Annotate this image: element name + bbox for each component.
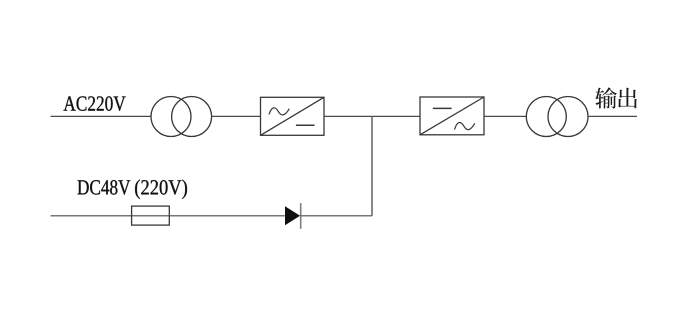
wire DC bus vertical (junction node to diode output) bbox=[371, 116, 373, 215]
wire inverter to T2 bbox=[484, 115, 526, 117]
wire AC input bbox=[51, 115, 152, 117]
wire rectifier to inverter bbox=[324, 115, 420, 117]
transformer T1 bbox=[151, 97, 212, 137]
wire diode to DC bus bbox=[301, 215, 372, 217]
wire T1 to rectifier bbox=[212, 115, 261, 117]
label DC48V(220V) bbox=[78, 180, 131, 195]
label AC220V bbox=[63, 96, 125, 111]
fuse F1 bbox=[132, 206, 170, 225]
diode D1 cathode bar bbox=[300, 203, 302, 229]
wire output bbox=[588, 115, 637, 117]
inverter U2 (DC/AC) bbox=[420, 97, 484, 135]
label 输出 output text: glyph shu bbox=[595, 87, 617, 108]
transformer T2 bbox=[526, 97, 588, 137]
diode D1 anode triangle bbox=[285, 206, 300, 225]
rectifier U1 (AC/DC) bbox=[261, 97, 325, 135]
label 输出 output text: glyph chu bbox=[618, 88, 637, 109]
wire through fuse to diode bbox=[132, 215, 285, 217]
wire DC input bbox=[51, 215, 132, 217]
